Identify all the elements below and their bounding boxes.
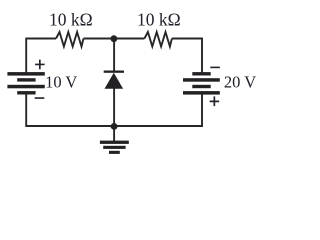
- svg-text:10 kΩ: 10 kΩ: [49, 10, 93, 30]
- battery V2 plate 1 (short, -): [192, 72, 210, 75]
- battery V1 plate 1 (long, +): [7, 72, 44, 76]
- ground bar 1: [100, 141, 129, 144]
- svg-text:10 V: 10 V: [45, 73, 77, 92]
- battery V2 plate 2 (long): [183, 78, 220, 82]
- resistor R1: [56, 32, 84, 47]
- wire middle upper (node A to diode D1): [113, 39, 115, 72]
- resistor R2: [144, 32, 172, 47]
- wire ground stem: [113, 126, 115, 141]
- wire middle lower (diode D1 to node B): [113, 88, 115, 126]
- node A junction dot: [111, 35, 118, 42]
- battery V1 plate 2 (short): [17, 78, 35, 81]
- svg-text:10 kΩ: 10 kΩ: [137, 10, 181, 30]
- diode D1 triangle: [105, 73, 124, 89]
- battery V2 plate 3 (short): [192, 85, 210, 88]
- wire top middle (R1 to R2 through node A): [84, 38, 145, 40]
- wire top-right corner (R2 to battery V2 top): [172, 39, 202, 74]
- battery V2 minus sign: [210, 67, 220, 69]
- diode D1 cathode bar: [104, 71, 124, 73]
- wire top-left corner (battery V1 top to resistor R1): [26, 39, 56, 74]
- battery V1 minus sign: [35, 97, 45, 99]
- svg-text:20 V: 20 V: [224, 73, 256, 92]
- wire bottom loop (V1 bottom to V2 bottom through node B): [26, 94, 202, 127]
- battery V2 plate 4 (long, +): [183, 91, 220, 95]
- battery V1 plus sign: [35, 60, 45, 70]
- battery V2 plus sign: [210, 96, 220, 106]
- battery V1 plate 4 (short, -): [17, 91, 35, 94]
- ground bar 2: [103, 146, 125, 149]
- ground bar 3: [109, 151, 120, 154]
- battery V1 plate 3 (long): [7, 85, 44, 89]
- node B junction dot: [111, 123, 118, 130]
